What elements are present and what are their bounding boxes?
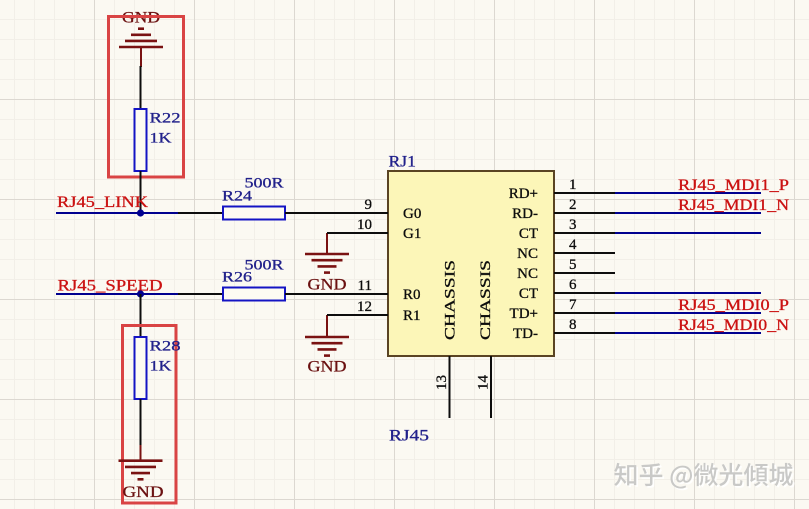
svg-text:6: 6 [569,277,577,293]
resistor R22 [135,109,181,171]
pin 8 (TD-) [513,317,615,342]
wire RJ45_LINK [56,212,178,214]
svg-text:GND: GND [308,277,347,294]
power port GND (bottom) [119,445,164,501]
svg-text:14: 14 [476,375,492,391]
pin 9 (G0) [330,197,421,222]
junction on SPEED wire [137,290,144,297]
svg-text:CT: CT [519,286,538,302]
svg-text:1: 1 [569,177,577,193]
junction on LINK wire [137,209,144,216]
svg-text:7: 7 [569,297,577,313]
selection box around GND and R22 [109,17,184,178]
pin 12 (R1) [327,299,421,324]
svg-text:5: 5 [569,257,577,273]
svg-text:RJ45_MDI0_N: RJ45_MDI0_N [678,317,789,334]
svg-text:RJ45_MDI1_P: RJ45_MDI1_P [678,177,789,194]
svg-text:RJ45_LINK: RJ45_LINK [57,194,149,211]
wire from pin 7 [615,312,761,314]
wire GND to R22 [140,66,142,110]
svg-text:R1: R1 [403,308,421,324]
wire from pin 2 [615,212,761,214]
selection box around R28 and GND [123,326,177,504]
svg-text:RJ45_SPEED: RJ45_SPEED [58,278,163,295]
wire from pin 3 [615,232,761,234]
wire RJ45_SPEED [56,293,178,295]
svg-text:RJ45_MDI0_P: RJ45_MDI0_P [678,297,789,314]
svg-text:TD-: TD- [513,326,538,342]
wire R24 to pin 9 [285,212,330,214]
svg-text:GND: GND [123,484,164,501]
svg-text:1K: 1K [150,359,172,375]
power port GND (pin 12) [305,337,349,376]
wire SPEED to R26 (pin) [178,293,223,295]
power port GND (top) [119,10,163,68]
svg-text:GND: GND [308,359,347,376]
wire LINK to R24 (pin) [178,212,223,214]
svg-text:12: 12 [357,299,372,315]
wire pin 10 to GND [326,233,328,254]
svg-text:1K: 1K [150,131,172,147]
pin 14 (CHASSIS) [476,260,495,418]
wire from pin 6 [615,292,761,294]
svg-text:RJ1: RJ1 [389,154,417,171]
wire pin 12 to GND [326,315,328,337]
svg-text:NC: NC [517,246,538,262]
svg-text:3: 3 [569,217,577,233]
wire from pin 1 [615,192,761,194]
watermark zhihu [614,463,794,490]
svg-text:RD+: RD+ [509,186,538,202]
wire SPEED junction to R28 [140,294,142,337]
svg-text:G0: G0 [403,206,421,222]
pin 4 (NC) [517,237,615,262]
resistor R26 [222,258,285,301]
pin 6 (CT) [519,277,615,302]
svg-text:R0: R0 [403,287,421,303]
resistor R24 [222,176,285,220]
pin 13 (CHASSIS) [434,260,459,418]
svg-text:R28: R28 [150,339,181,355]
svg-text:10: 10 [357,217,372,233]
pin 7 (TD+) [510,297,615,322]
svg-text:8: 8 [569,317,577,333]
svg-text:2: 2 [569,197,577,213]
pin 10 (G1) [327,217,421,242]
pin 11 (R0) [330,278,421,303]
svg-text:500R: 500R [245,176,284,192]
svg-text:NC: NC [517,266,538,282]
svg-text:RJ45: RJ45 [389,428,429,445]
svg-text:R22: R22 [150,111,181,127]
wire from pin 8 [615,332,761,334]
svg-text:13: 13 [434,375,450,390]
svg-text:RJ45_MDI1_N: RJ45_MDI1_N [678,197,789,214]
pin 1 (RD+) [509,177,615,202]
svg-text:CHASSIS: CHASSIS [478,260,494,340]
pin 3 (CT) [519,217,615,242]
svg-text:500R: 500R [245,258,284,274]
wire R22 to LINK net [140,171,142,213]
svg-text:CT: CT [519,226,538,242]
svg-text:TD+: TD+ [510,306,538,322]
wire R26 to pin 11 [285,293,330,295]
pin 2 (RD-) [512,197,615,222]
resistor R28 [135,337,181,399]
component RJ1 body [388,171,554,356]
svg-text:CHASSIS: CHASSIS [443,260,459,340]
svg-text:RD-: RD- [512,206,538,222]
svg-text:4: 4 [569,237,577,253]
svg-text:9: 9 [365,197,373,213]
wire R28 to bottom GND [140,399,142,451]
svg-text:11: 11 [358,278,372,294]
power port GND (pin 10) [305,254,349,294]
pin 5 (NC) [517,257,615,282]
svg-text:G1: G1 [403,226,421,242]
